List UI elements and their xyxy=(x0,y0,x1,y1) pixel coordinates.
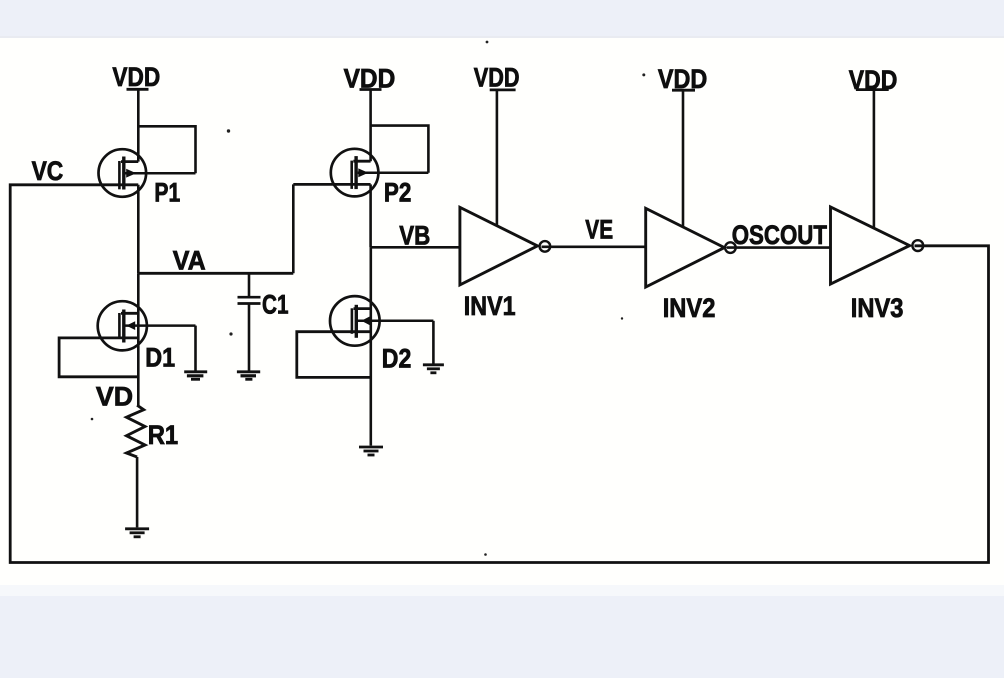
svg-text:VE: VE xyxy=(585,214,613,244)
transistor D1 xyxy=(59,273,195,405)
svg-text:VDD: VDD xyxy=(344,63,396,93)
ground (D1 bulk) xyxy=(184,372,207,380)
scan noise dots xyxy=(91,41,646,556)
svg-text:VA: VA xyxy=(173,245,206,275)
svg-text:P1: P1 xyxy=(154,177,180,207)
svg-text:VB: VB xyxy=(399,220,430,250)
svg-text:VDD: VDD xyxy=(112,62,160,92)
wire VB node xyxy=(371,246,460,249)
ground (C1) xyxy=(237,372,260,380)
svg-text:P2: P2 xyxy=(384,178,412,208)
svg-text:VDD: VDD xyxy=(849,65,898,95)
svg-text:VC: VC xyxy=(32,156,64,186)
svg-text:VD: VD xyxy=(96,382,133,412)
wire VA node xyxy=(138,184,293,273)
top blue band xyxy=(0,0,1004,36)
svg-text:D1: D1 xyxy=(145,343,175,373)
VDD terminal 5 (INV3) xyxy=(856,90,889,229)
capacitor C1 xyxy=(238,273,261,372)
wire feedback loop (INV3 output, right/bottom/left, to VC) xyxy=(10,185,988,563)
inverter INV3 xyxy=(831,207,924,284)
svg-text:D2: D2 xyxy=(382,344,412,374)
svg-text:OSCOUT: OSCOUT xyxy=(732,220,828,250)
resistor R1 xyxy=(127,405,146,527)
svg-text:R1: R1 xyxy=(148,420,179,450)
transistor P2 xyxy=(293,126,428,248)
VDD terminal 1 (P1 branch) xyxy=(127,89,149,161)
svg-text:INV2: INV2 xyxy=(663,293,716,323)
transistor D2 xyxy=(297,247,434,445)
ground (D2 bulk) xyxy=(423,365,444,373)
svg-text:C1: C1 xyxy=(262,290,289,320)
ground (D2 source) xyxy=(359,447,383,455)
svg-text:INV3: INV3 xyxy=(851,293,904,323)
bottom blue band xyxy=(0,596,1004,678)
svg-text:INV1: INV1 xyxy=(464,291,516,321)
svg-text:VDD: VDD xyxy=(474,62,520,92)
inverter INV2 xyxy=(646,208,736,287)
transistor P1 xyxy=(99,126,196,273)
wire OSCOUT node xyxy=(727,246,831,249)
inverter INV1 xyxy=(460,207,550,285)
VDD terminal 4 (INV2) xyxy=(672,90,695,226)
svg-text:VDD: VDD xyxy=(658,64,707,94)
wire VE node xyxy=(542,246,646,249)
ground (R1) xyxy=(125,529,149,537)
VDD terminal 3 (INV1) xyxy=(490,90,516,225)
VDD terminal 2 (P2 branch) xyxy=(360,90,382,162)
